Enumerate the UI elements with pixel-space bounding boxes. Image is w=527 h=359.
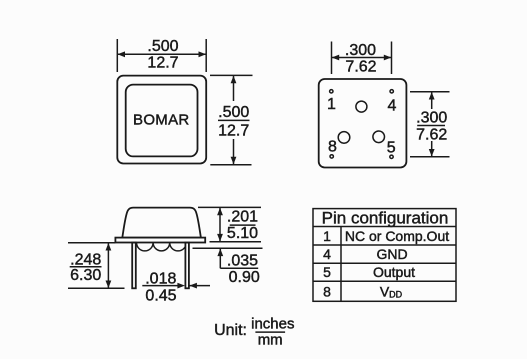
svg-text:8: 8	[323, 283, 331, 299]
dimension .248/6.30 (lead length)	[68, 243, 125, 289]
svg-text:6.30: 6.30	[70, 267, 101, 284]
svg-text:.500: .500	[218, 104, 249, 121]
dimension .018/0.45 (lead diameter)	[142, 270, 210, 304]
svg-text:.035: .035	[227, 252, 258, 269]
svg-text:GND: GND	[376, 246, 407, 262]
svg-text:1: 1	[327, 96, 336, 113]
pin configuration table	[313, 208, 456, 301]
svg-text:.500: .500	[147, 38, 178, 55]
svg-text:5.10: 5.10	[227, 225, 258, 242]
pin 5 hole	[390, 155, 393, 158]
svg-text:7.62: 7.62	[416, 127, 447, 144]
top center circle	[356, 101, 367, 112]
svg-text:4: 4	[323, 246, 331, 262]
seal bumps	[137, 243, 187, 251]
svg-text:VDD: VDD	[380, 283, 403, 299]
svg-text:0.45: 0.45	[145, 287, 176, 304]
svg-text:inches: inches	[251, 315, 294, 332]
left lead	[132, 243, 136, 289]
dimension .300/7.62 vertical (pin spacing)	[410, 92, 450, 157]
mid left circle	[338, 132, 350, 144]
pin 8 hole	[330, 155, 333, 158]
dimension .500/12.7 vertical (top view height)	[210, 75, 253, 164]
dimension .500/12.7 horizontal (top view width)	[117, 38, 206, 72]
top view inner case outline	[126, 85, 198, 157]
top view outer case outline	[117, 76, 206, 164]
svg-text:5: 5	[387, 139, 396, 156]
pin 4 hole	[390, 90, 393, 93]
dimension .035/0.90 (standoff)	[193, 248, 263, 286]
svg-text:mm: mm	[258, 331, 283, 348]
dimension .201/5.10 (can height)	[198, 207, 261, 242]
svg-text:.201: .201	[227, 209, 258, 226]
svg-text:5: 5	[323, 264, 331, 280]
svg-text:0.90: 0.90	[229, 269, 260, 286]
mid right circle	[373, 131, 385, 143]
svg-text:12.7: 12.7	[147, 55, 178, 72]
side view can outline	[122, 208, 201, 238]
dimension .300/7.62 horizontal (pin spacing)	[332, 42, 392, 76]
svg-text:.300: .300	[416, 110, 447, 127]
svg-text:7.62: 7.62	[345, 59, 376, 76]
side view base flange	[115, 238, 205, 243]
svg-text:.248: .248	[70, 252, 101, 269]
svg-text:Output: Output	[373, 264, 415, 280]
svg-text:Unit:: Unit:	[214, 322, 247, 339]
svg-text:12.7: 12.7	[218, 123, 249, 140]
svg-text:Pin configuration: Pin configuration	[322, 208, 449, 227]
svg-text:4: 4	[388, 98, 397, 115]
svg-text:.018: .018	[145, 270, 176, 287]
right lead	[185, 243, 189, 289]
svg-text:.300: .300	[345, 42, 376, 59]
svg-text:NC or Comp.Out: NC or Comp.Out	[345, 228, 449, 244]
svg-text:1: 1	[323, 228, 331, 244]
pin 1 hole	[330, 90, 333, 93]
svg-text:BOMAR: BOMAR	[133, 112, 190, 129]
svg-text:8: 8	[328, 138, 337, 155]
unit note	[214, 315, 294, 348]
bottom view case outline	[319, 79, 407, 168]
